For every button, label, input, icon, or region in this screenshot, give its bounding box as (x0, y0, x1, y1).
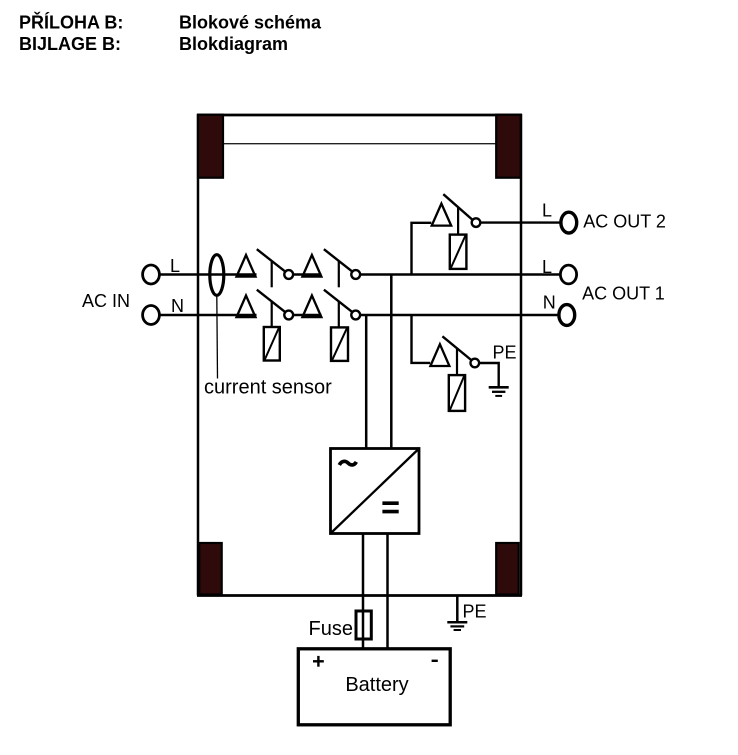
corner mark top-right (496, 115, 521, 178)
svg-text:L: L (170, 256, 180, 276)
svg-text:Blokdiagram: Blokdiagram (179, 34, 288, 54)
terminal AC OUT 1 N (559, 305, 575, 326)
triangle arrester T1 N (237, 296, 256, 318)
wire L between contacts (293, 273, 322, 275)
enclosure box top border (197, 114, 522, 117)
switch S2 N contact circle (351, 311, 360, 320)
switch S4 blade (442, 336, 471, 360)
inverter DC equals (382, 501, 398, 505)
ground symbol (PE relay) (489, 386, 509, 389)
switch S1 link lower (271, 301, 273, 328)
switch S1 L contact circle (284, 270, 293, 279)
wire S3 contact to AC OUT 2 terminal (480, 221, 560, 223)
switch S4 link (456, 348, 458, 375)
svg-text:AC IN: AC IN (82, 291, 130, 311)
corner mark top-left (198, 115, 223, 178)
branch wire up to AC OUT 2 relay (412, 223, 432, 275)
wire AC IN L to first contact (160, 273, 257, 275)
switch S1 N blade (257, 290, 285, 312)
switch S2 L contact circle (351, 270, 360, 279)
relay actuator R3 (450, 235, 467, 269)
svg-text:AC OUT 2: AC OUT 2 (583, 211, 666, 231)
svg-text:PE: PE (463, 602, 487, 622)
current sensor toroid (210, 255, 224, 296)
inverter diagonal (332, 450, 419, 533)
svg-text:Fuse: Fuse (309, 618, 353, 640)
wire inverter AC left (from N bus) (365, 315, 368, 449)
ground symbol (bottom) (447, 621, 467, 624)
battery BT1 (298, 649, 450, 725)
terminal AC IN L (143, 265, 160, 284)
fuse F1 (356, 611, 371, 639)
ground stub at bottom border (456, 596, 459, 623)
switch S3 link (457, 207, 459, 234)
wire inverter AC right (from L bus) (390, 275, 393, 450)
svg-text:current sensor: current sensor (204, 377, 332, 399)
relay actuator R4 (449, 375, 465, 411)
terminal AC OUT 2 L (561, 212, 577, 233)
svg-text:Blokové schéma: Blokové schéma (179, 13, 322, 33)
enclosure box left border (197, 114, 200, 596)
triangle arrester T1 L (237, 255, 256, 277)
switch S1 N contact circle (284, 311, 293, 320)
label battery minus (432, 660, 438, 662)
switch S2 link lower (338, 301, 340, 328)
terminal AC OUT 1 L (560, 265, 576, 284)
wire L bus to AC OUT 1 L terminal (360, 273, 561, 275)
svg-text:BIJLAGE B:: BIJLAGE B: (19, 34, 121, 54)
wire inverter DC left (battery +) (362, 534, 365, 649)
switch S2 L blade (324, 249, 352, 271)
corner mark bottom-right (496, 543, 519, 595)
svg-text:Battery: Battery (345, 674, 408, 696)
wire inverter DC right (battery -) (386, 534, 389, 649)
enclosure box right border (520, 114, 523, 596)
switch S4 contact circle (471, 359, 480, 368)
svg-text:AC OUT 1: AC OUT 1 (582, 284, 665, 304)
switch S1 link upper (271, 261, 273, 287)
label battery plus (313, 660, 324, 662)
switch S2 link upper (338, 261, 340, 287)
terminal AC IN N (143, 306, 160, 325)
inverter AC tilde (339, 461, 356, 465)
wire AC IN N to first contact (160, 314, 257, 316)
svg-text:N: N (171, 296, 184, 316)
svg-text:PE: PE (493, 343, 517, 363)
inverter block U1 (331, 449, 420, 534)
svg-text:L: L (542, 257, 552, 277)
inner top line (224, 143, 496, 145)
svg-text:N: N (543, 292, 556, 312)
wire N between contacts (293, 314, 322, 316)
svg-text:L: L (542, 200, 552, 220)
relay actuator R1 (264, 327, 280, 361)
enclosure box bottom border (197, 594, 522, 597)
switch S3 contact circle (472, 218, 481, 227)
switch S1 L blade (257, 249, 285, 271)
wire N bus to AC OUT 1 N terminal (360, 314, 559, 316)
corner mark bottom-left (199, 543, 222, 595)
triangle arrester T2 N (302, 296, 321, 318)
branch wire down to PE relay (412, 315, 431, 363)
current sensor leader line (216, 296, 219, 379)
wire S4 contact to PE ground (479, 363, 499, 386)
triangle arrester T4 (PE relay) (430, 344, 449, 366)
triangle arrester T3 (AC OUT 2) (432, 204, 452, 226)
triangle arrester T2 L (302, 255, 321, 277)
switch S3 blade (443, 194, 472, 219)
relay actuator R2 (331, 327, 348, 361)
svg-text:PŘÍLOHA B:: PŘÍLOHA B: (19, 12, 123, 33)
switch S2 N blade (324, 290, 352, 312)
